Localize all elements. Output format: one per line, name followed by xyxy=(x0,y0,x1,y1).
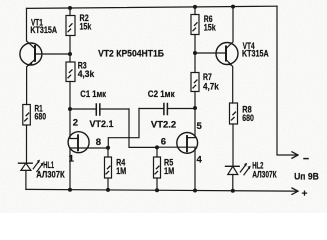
svg-text:Uп 9В: Uп 9В xyxy=(294,171,319,181)
LED HL2 xyxy=(226,163,251,191)
capacitor C2 xyxy=(139,104,195,115)
svg-text:1М: 1М xyxy=(116,166,126,176)
wire bottom supply rail xyxy=(26,189,297,191)
svg-text:1: 1 xyxy=(69,154,75,165)
transistor VT4 xyxy=(216,7,238,104)
node base VT1 / R2-R3 junction xyxy=(68,52,72,56)
plus sign xyxy=(303,191,307,195)
svg-text:KT315A: KT315A xyxy=(242,49,269,59)
node on top rail above R6 xyxy=(193,5,197,9)
resistor R1 xyxy=(23,105,31,164)
svg-text:680: 680 xyxy=(35,112,47,122)
svg-text:АЛ307К: АЛ307К xyxy=(36,170,65,180)
resistor R4 xyxy=(105,148,112,190)
label VT2.2 xyxy=(151,119,176,129)
label Un 9V xyxy=(294,171,319,181)
pin 4 xyxy=(197,155,203,166)
svg-text:4: 4 xyxy=(197,155,203,166)
plus output arrowhead xyxy=(292,188,298,194)
wire right rail down to minus output xyxy=(277,6,297,155)
svg-text:VT2.1: VT2.1 xyxy=(90,119,114,129)
resistor R3 xyxy=(66,54,75,109)
node on top rail above VT4 collector xyxy=(231,5,235,9)
wire VT1 base to node (70,54) xyxy=(35,53,70,55)
resistor R5 xyxy=(154,147,161,190)
pin 6 xyxy=(161,137,166,148)
node bottom rail / VT2.1 source xyxy=(68,188,72,192)
node bottom rail / R4 xyxy=(106,188,110,192)
svg-text:5: 5 xyxy=(197,121,203,132)
node C: R7 / C2 / VT2.2 drain xyxy=(193,106,197,110)
pin 5 xyxy=(197,121,203,132)
node base VT4 / R6-R7 junction xyxy=(193,51,197,55)
svg-text:15k: 15k xyxy=(80,22,93,32)
wire VT2.1 gate to node D xyxy=(70,147,108,149)
pin 2 xyxy=(73,118,78,129)
pin 8 xyxy=(96,137,101,148)
svg-text:R7: R7 xyxy=(203,72,212,82)
svg-text:KT315A: KT315A xyxy=(30,25,57,35)
node bottom rail / VT2.2 source xyxy=(193,189,197,193)
minus output arrowhead xyxy=(292,152,298,158)
LED HL1 xyxy=(19,160,44,190)
node bottom rail / R5 xyxy=(155,188,159,192)
node D: R4 / VT2.1 gate / C2 path xyxy=(106,146,110,150)
svg-text:АЛ307К: АЛ307К xyxy=(252,169,277,179)
capacitor C1 xyxy=(70,104,129,115)
node on top rail above R2 xyxy=(68,6,72,10)
label VT2.1 xyxy=(90,119,114,129)
transistor VT1 xyxy=(20,8,42,104)
svg-text:4,7k: 4,7k xyxy=(203,81,220,91)
resistor R2 xyxy=(66,8,75,54)
svg-text:1М: 1М xyxy=(164,166,174,176)
resistor R7 xyxy=(191,53,199,108)
resistor R8 xyxy=(230,103,238,166)
svg-text:C1 1мк: C1 1мк xyxy=(80,89,106,99)
wire C2 cross-coupling down to node D xyxy=(108,109,139,148)
svg-text:C2 1мк: C2 1мк xyxy=(148,89,175,99)
node A: R3 / C1 / VT2.1 drain xyxy=(68,107,72,111)
wire C1 cross-coupling down to node B xyxy=(129,109,157,147)
node B: R5 / VT2.2 gate / C1 path xyxy=(155,145,159,149)
transistor VT2.2 xyxy=(157,108,198,191)
svg-text:15k: 15k xyxy=(204,22,217,32)
node bottom rail / HL2 xyxy=(231,189,235,193)
svg-text:VT2.2: VT2.2 xyxy=(151,119,176,129)
minus sign xyxy=(304,158,308,160)
svg-text:VT2 КР504НТ1Б: VT2 КР504НТ1Б xyxy=(98,49,164,60)
wire VT4 base xyxy=(195,52,226,54)
pin 1 xyxy=(69,154,75,165)
resistor R6 xyxy=(191,7,199,53)
label VT2 device xyxy=(98,49,164,60)
svg-text:4,3k: 4,3k xyxy=(78,69,95,79)
wire top supply rail xyxy=(27,6,278,8)
svg-text:2: 2 xyxy=(73,118,78,129)
svg-text:680: 680 xyxy=(242,113,254,123)
transistor VT2.1 xyxy=(68,109,89,190)
label VT4 xyxy=(242,41,269,59)
label VT1 xyxy=(30,18,57,36)
svg-text:8: 8 xyxy=(96,137,101,148)
svg-text:6: 6 xyxy=(161,137,166,148)
